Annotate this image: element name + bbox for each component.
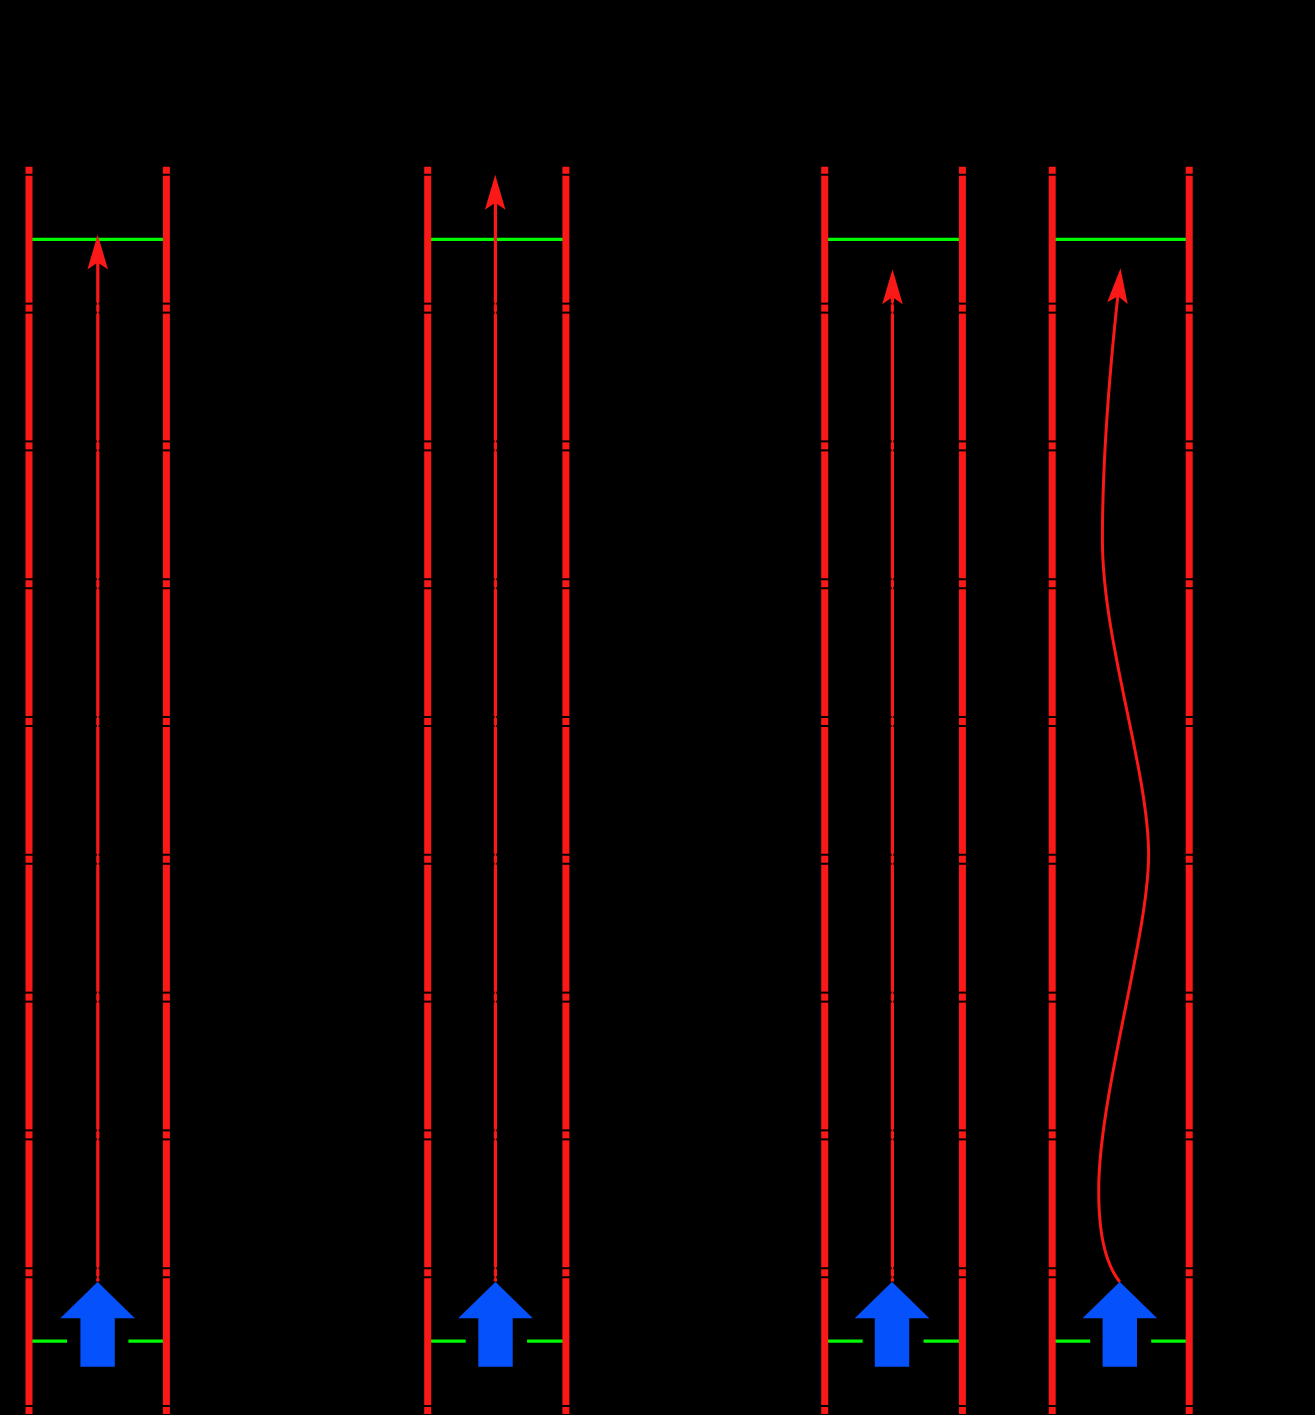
flow arrow 3 shaft (thin red, channel 3) bbox=[891, 296, 893, 1282]
flow arrow 1 head (channel 1) bbox=[87, 235, 108, 270]
channel 3 top meniscus line (green) bbox=[825, 238, 963, 241]
inlet arrow 4 (fat blue, channel 4) bbox=[1083, 1282, 1158, 1367]
channel 3 left wall (dashed red) bbox=[821, 167, 828, 1415]
flow arrow 2 shaft (thin red, channel 2) bbox=[494, 201, 496, 1282]
channel 4 right wall (dashed red) bbox=[1186, 167, 1193, 1415]
channel 2 bottom inlet level left dash (green) bbox=[428, 1339, 466, 1342]
inlet arrow 1 (fat blue, channel 1) bbox=[60, 1282, 135, 1367]
inlet arrow 2 (fat blue, channel 2) bbox=[458, 1282, 533, 1367]
flow arrow 1 shaft (thin red, channel 1) bbox=[97, 261, 99, 1282]
channel 2 top meniscus line (green) bbox=[428, 238, 566, 241]
channel 1 left wall (dashed red) bbox=[26, 167, 33, 1415]
channel 1 top meniscus line (green) bbox=[29, 238, 166, 241]
flow trajectory 4 wavy curve (thin red, channel 4) bbox=[1099, 278, 1149, 1282]
channel 1 right wall (dashed red) bbox=[163, 167, 170, 1415]
channel 4 bottom inlet level left dash (green) bbox=[1052, 1339, 1090, 1342]
channel 3 right wall (dashed red) bbox=[959, 167, 966, 1415]
channel 1 bottom inlet level right dash (green) bbox=[128, 1339, 166, 1342]
channel 2 right wall (dashed red) bbox=[562, 167, 569, 1415]
flow arrow 4 head (channel 4, tilted) bbox=[1107, 267, 1131, 304]
channel 2 bottom inlet level right dash (green) bbox=[527, 1339, 566, 1342]
flow arrow 2 head (channel 2) bbox=[485, 175, 506, 210]
channel 4 left wall (dashed red) bbox=[1049, 167, 1056, 1415]
channel 1 bottom inlet level left dash (green) bbox=[29, 1339, 67, 1342]
channel 4 bottom inlet level right dash (green) bbox=[1151, 1339, 1189, 1342]
channel 2 left wall (dashed red) bbox=[424, 167, 431, 1415]
flow arrow 3 head (channel 3) bbox=[882, 269, 903, 304]
inlet arrow 3 (fat blue, channel 3) bbox=[855, 1282, 930, 1367]
channel 3 bottom inlet level right dash (green) bbox=[924, 1339, 963, 1342]
channel 3 bottom inlet level left dash (green) bbox=[825, 1339, 863, 1342]
channel 4 top meniscus line (green) bbox=[1052, 238, 1189, 241]
